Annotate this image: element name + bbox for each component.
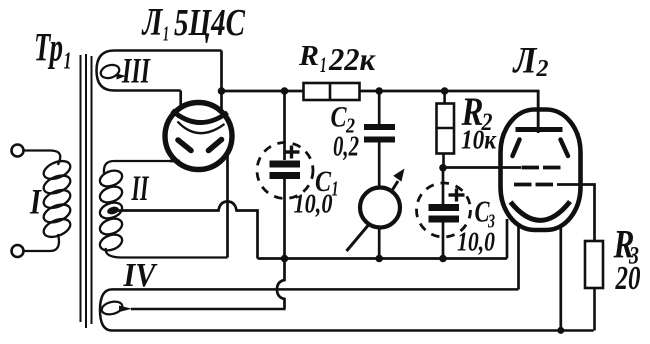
capacitor C1 (electrolytic) — [257, 91, 313, 259]
node: C2 top — [375, 87, 383, 95]
svg-text:Л: Л — [141, 1, 163, 44]
wire: bus riser down to IV middle lead with hop over heater line — [277, 259, 285, 310]
node: bus pickup — [375, 255, 383, 263]
svg-text:10,0: 10,0 — [457, 227, 495, 257]
wire: III top lead down to node B+ and tube top — [220, 51, 223, 114]
terminal (mains) bottom — [12, 245, 24, 257]
svg-text:2: 2 — [536, 56, 549, 82]
label R2 10k — [461, 89, 497, 155]
capacitor C3 (electrolytic) — [417, 168, 471, 259]
wire: common bus — [258, 257, 508, 260]
wire: tube L2 heater lead left — [517, 226, 520, 289]
label L2 — [512, 41, 549, 83]
tube L2 cathode arc — [511, 202, 571, 221]
svg-text:IV: IV — [123, 257, 158, 294]
svg-text:1: 1 — [332, 177, 339, 201]
resistor R2 — [437, 91, 455, 168]
wire: tube L1 right anode lead down to II bottom lead — [226, 150, 229, 258]
terminal (mains) top — [12, 145, 24, 157]
svg-text:Тр: Тр — [34, 25, 63, 70]
label R3 20 — [613, 222, 641, 298]
node: bus C3 — [439, 255, 447, 263]
pickup arrow upper segment + head — [392, 169, 405, 191]
svg-text:5Ц4С: 5Ц4С — [174, 2, 245, 44]
wire: winding IV middle lead to bus riser — [131, 308, 285, 311]
wire: tube L2 cathode lead to bus — [506, 219, 509, 259]
C3 plus sign — [449, 189, 465, 202]
node: cathode line to IV bottom — [557, 327, 564, 334]
label C1 10,0 — [294, 165, 339, 219]
svg-text:Л: Л — [512, 41, 538, 82]
node: C1 top — [281, 87, 289, 95]
wire: control grid lead to the right — [557, 185, 595, 242]
label R1 22k — [298, 40, 376, 77]
tube L2 anode — [516, 127, 563, 132]
svg-text:I: I — [29, 182, 42, 222]
svg-text:R: R — [298, 40, 319, 72]
wire: pickup bottom to bus — [378, 228, 381, 259]
label III — [121, 51, 151, 91]
winding IV tail — [119, 306, 132, 313]
svg-text:20: 20 — [615, 260, 641, 297]
svg-text:С: С — [331, 101, 348, 134]
svg-text:1: 1 — [320, 52, 327, 77]
tube L1 filament outer arc — [172, 111, 228, 123]
winding IV — [100, 289, 594, 330]
winding I — [24, 151, 73, 252]
label II — [131, 168, 150, 208]
wire: tube L2 heater lead right — [559, 226, 562, 331]
tube L1 label — [141, 1, 245, 46]
svg-text:10,0: 10,0 — [294, 189, 333, 219]
label I — [29, 182, 42, 222]
label C3 10,0 — [457, 194, 495, 257]
tube L1 envelope — [165, 103, 232, 170]
pickup (circle with arrow) — [360, 188, 400, 228]
node: bus C1 — [281, 255, 289, 263]
label Tr1 — [34, 25, 72, 75]
svg-text:10к: 10к — [461, 125, 497, 155]
C1 plus sign — [284, 146, 300, 159]
tube L1 anode stroke left — [178, 140, 191, 151]
winding III — [97, 51, 222, 91]
pickup arrow lower segment — [347, 226, 369, 252]
winding II — [98, 161, 228, 258]
tube L2 control grid (dashed) — [514, 183, 553, 187]
tube L2 beam plate right — [561, 140, 569, 157]
wire: screen grid node to tube L2 — [444, 166, 522, 169]
label C2 0,2 — [331, 101, 360, 163]
tube L1 anode stroke right — [209, 140, 222, 151]
svg-text:1: 1 — [163, 22, 169, 46]
winding III tail — [117, 74, 127, 80]
svg-text:1: 1 — [64, 49, 72, 75]
resistor R1 — [304, 83, 360, 100]
svg-text:0,2: 0,2 — [333, 131, 359, 163]
label IV — [123, 257, 158, 294]
transformer Tr1 core — [81, 54, 92, 328]
svg-text:22к: 22к — [328, 41, 376, 77]
svg-text:III: III — [121, 51, 151, 91]
node: B+ at rectifier output — [218, 87, 226, 95]
tube L2 beam plate left — [513, 140, 520, 157]
tube L2 anode lead — [537, 91, 540, 127]
wire: II top lead to tube anode (left) — [170, 160, 180, 163]
capacitor C2 — [364, 91, 395, 186]
resistor R3 — [585, 241, 603, 331]
svg-text:II: II — [131, 168, 150, 208]
wire: B+ rail — [222, 91, 539, 133]
winding II center tap — [106, 205, 119, 215]
tube L2 screen grid (dashed) — [522, 166, 561, 170]
node: R2/C3/g2 junction — [439, 164, 447, 172]
wire: center tap to bus with hop — [113, 202, 258, 259]
tube L2 envelope — [501, 110, 581, 231]
node: R2 top — [441, 87, 449, 95]
tube L1 filament inner arc — [178, 122, 225, 134]
wire: III bottom lead down to tube — [179, 91, 182, 111]
